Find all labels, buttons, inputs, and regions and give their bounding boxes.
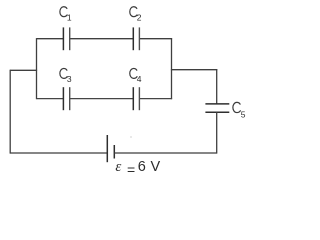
label C1 — [60, 7, 72, 23]
label battery EMF value — [115, 159, 160, 178]
svg-text:4: 4 — [137, 74, 142, 84]
faint mark — [130, 136, 132, 138]
label C5 — [233, 102, 246, 119]
wire left tap — [10, 69, 37, 71]
capacitor C5 — [205, 104, 229, 112]
wire top branch left segment — [37, 38, 64, 40]
capacitor C4 — [133, 87, 139, 110]
svg-text:1: 1 — [67, 13, 72, 23]
capacitor C2 — [133, 27, 139, 50]
wire outer right vertical upper — [216, 69, 218, 104]
wire bottom left segment — [10, 152, 107, 154]
capacitor C1 — [63, 27, 69, 50]
wire left inner edge — [36, 38, 38, 99]
wire middle branch right segment — [139, 98, 172, 100]
label C2 — [130, 7, 142, 23]
wire outer right vertical lower — [216, 112, 218, 153]
svg-text:V: V — [151, 159, 161, 175]
wire right tap — [171, 69, 217, 71]
wire right inner edge — [171, 38, 173, 99]
svg-text:3: 3 — [67, 74, 72, 84]
svg-text:2: 2 — [137, 13, 142, 23]
label C4 — [130, 68, 142, 84]
label C3 — [60, 68, 72, 84]
wire outer left vertical — [9, 70, 11, 154]
wire middle branch left segment — [37, 98, 64, 100]
battery long plate — [106, 135, 108, 162]
wire top branch right segment — [139, 38, 172, 40]
wire middle branch middle segment — [70, 98, 134, 100]
svg-text:6: 6 — [138, 159, 146, 175]
capacitor C3 — [63, 87, 69, 110]
svg-text:=: = — [127, 161, 135, 177]
svg-text:5: 5 — [241, 109, 246, 119]
wire top branch middle segment — [70, 38, 134, 40]
svg-text:ε: ε — [115, 159, 121, 175]
battery short plate — [113, 145, 115, 159]
wire bottom right segment — [114, 152, 216, 154]
